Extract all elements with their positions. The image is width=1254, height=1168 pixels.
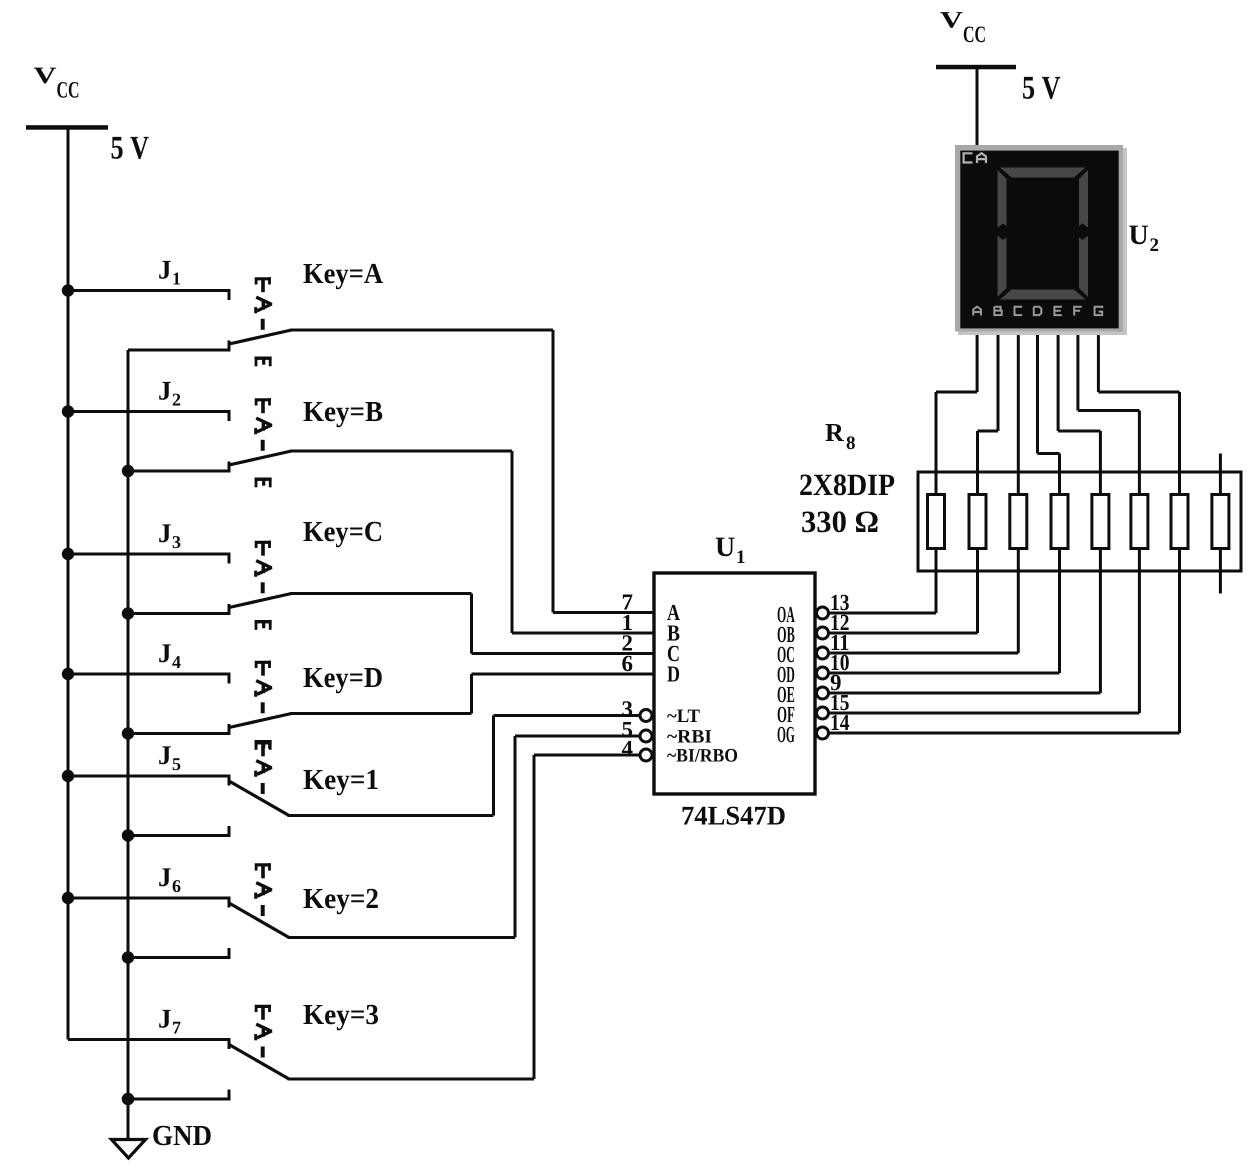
- segment a (lit): [1000, 168, 1086, 178]
- U1 body outline: [654, 573, 815, 794]
- wire: OF to resistor network: [829, 712, 1140, 715]
- J5 actuator glyphs: [255, 741, 271, 748]
- svg-text:2X8DIP: 2X8DIP: [799, 467, 895, 502]
- pin 3 inversion bubble: [640, 710, 652, 722]
- pin 12 inversion bubble: [817, 627, 829, 639]
- J4 bottom throw contact tick: [228, 724, 231, 734]
- wire: R8-5 internal leads: [1099, 472, 1102, 495]
- wire: J2 top throw from VCC bus: [68, 410, 231, 413]
- wire: display segment B to resistor: [976, 331, 1000, 472]
- U1 output pin 15 (OF): [777, 571, 1141, 727]
- resistor R8-4: [1051, 472, 1068, 571]
- wire: pin 1 lead: [512, 632, 654, 635]
- J4 actuator glyphs: [255, 661, 271, 668]
- svg-text:5 V: 5 V: [111, 131, 150, 167]
- junction dot on VCC bus at J1: [62, 284, 74, 296]
- wire: ground vertical rail (net GND): [127, 350, 130, 1138]
- R8 DIP body outline: [918, 472, 1241, 571]
- J7 bottom throw contact tick: [228, 1090, 231, 1100]
- junction dot on GND rail at J5: [122, 829, 134, 841]
- svg-text:Key=1: Key=1: [303, 764, 379, 796]
- svg-text:R: R: [825, 418, 844, 447]
- pin 9 inversion bubble: [817, 687, 829, 699]
- wire: J5 pole to U1: [288, 814, 494, 817]
- wire: unused R8-8 bottom stub: [1219, 571, 1222, 594]
- wire: R8-4 internal leads: [1058, 472, 1061, 495]
- wire: J5 top throw from VCC bus: [68, 775, 231, 778]
- wire: display segment C to resistor: [1017, 331, 1020, 472]
- J6 actuator glyphs: [255, 863, 271, 870]
- svg-text:CC: CC: [963, 22, 986, 48]
- J3 switch arm: [229, 594, 292, 608]
- J2 bottom throw contact tick: [228, 462, 231, 472]
- J5 bottom throw contact tick: [228, 826, 231, 836]
- wire: J6 top throw from VCC bus: [68, 897, 231, 900]
- svg-text:1: 1: [736, 547, 746, 568]
- svg-text:V: V: [34, 63, 57, 89]
- junction dot on VCC bus at J4: [62, 668, 74, 680]
- svg-text:2: 2: [1150, 235, 1160, 256]
- wire: pin 5 lead: [515, 735, 640, 738]
- wire: J3 top throw from VCC bus: [68, 553, 231, 556]
- VCC bar: [936, 65, 1016, 70]
- U1 output pin 13 (OA): [777, 571, 938, 627]
- wire: J2 pole to U1: [290, 450, 512, 453]
- GND triangle: [112, 1140, 146, 1159]
- wire: J4 top throw from VCC bus: [68, 673, 231, 676]
- pin 13 inversion bubble: [817, 607, 829, 619]
- J5 top throw contact tick: [228, 776, 231, 786]
- resistor R8-1: [928, 472, 945, 571]
- svg-text:J: J: [158, 376, 172, 406]
- svg-text:3: 3: [172, 532, 181, 552]
- pin 4 inversion bubble: [640, 749, 652, 761]
- wire: J2 bottom throw from GND rail: [128, 470, 231, 473]
- U2 pin label B: [994, 307, 1001, 315]
- J1 actuator glyphs: [255, 277, 271, 284]
- wire: J3 pole to U1: [290, 592, 472, 595]
- junction dot on VCC bus at J3: [62, 548, 74, 560]
- J1 bottom throw contact tick: [228, 341, 231, 351]
- wire: pin 7 lead: [553, 611, 654, 614]
- junction dot at GND rail / J7 throw: [122, 1093, 134, 1105]
- switch J7 (Key=3) SPDT: [68, 755, 536, 1105]
- switch J4 (Key=D) SPDT: [62, 638, 473, 750]
- U2 face: [960, 151, 1118, 329]
- resistor R8-7: [1171, 472, 1188, 571]
- U1 input pin 6 (D): [472, 651, 681, 687]
- wire: pin 3 lead: [494, 714, 641, 717]
- wire: OE to resistor network: [829, 692, 1101, 695]
- power symbol VCC (left): [26, 63, 149, 166]
- svg-text:J: J: [158, 1004, 172, 1034]
- wire: pin 6 lead: [472, 673, 655, 676]
- svg-text:J: J: [158, 638, 172, 668]
- wire: display segment F to resistor: [1076, 331, 1141, 472]
- svg-text:14: 14: [830, 710, 850, 735]
- U1 output pin 10 (OD): [777, 571, 1061, 687]
- U2 bezel frame: [955, 145, 1123, 332]
- wire: R8-3 internal leads: [1017, 472, 1020, 495]
- wire: display segment E to resistor: [1057, 331, 1102, 472]
- resistor R8-6: [1131, 472, 1148, 571]
- switch J5 (Key=1) SPDT: [62, 716, 495, 842]
- U1 output pin 12 (OB): [777, 571, 979, 647]
- ground symbol GND: [112, 1093, 213, 1158]
- junction dot on VCC bus at J2: [62, 405, 74, 417]
- J3 top throw contact tick: [228, 554, 231, 564]
- wire: J4 pole to U1: [290, 712, 472, 715]
- wire: J6 pole to U1: [288, 936, 516, 939]
- wire: OA to resistor network: [829, 612, 937, 615]
- svg-text:330 Ω: 330 Ω: [801, 504, 879, 539]
- J7 top throw contact tick: [228, 1040, 231, 1050]
- wire: J5 bottom throw from GND rail: [128, 834, 231, 837]
- switch J2 (Key=B) SPDT: [62, 376, 514, 634]
- segment d (lit): [1000, 290, 1086, 300]
- resistor R8-5: [1092, 472, 1109, 571]
- wire: OB to resistor network: [829, 632, 978, 635]
- J5 switch arm: [229, 781, 289, 816]
- J2 top throw contact tick: [228, 412, 231, 422]
- J2 actuator glyphs: [255, 398, 271, 405]
- junction dot on VCC bus at J6: [62, 892, 74, 904]
- pin 11 inversion bubble: [817, 647, 829, 659]
- svg-text:2: 2: [172, 390, 181, 410]
- wire: J6 bottom throw from GND rail: [128, 956, 231, 959]
- svg-text:6: 6: [622, 651, 634, 676]
- wire: R8-2 internal leads: [976, 472, 979, 495]
- wire: OG to resistor network: [829, 732, 1180, 735]
- pin 14 inversion bubble: [817, 727, 829, 739]
- svg-text:J: J: [158, 255, 172, 285]
- svg-text:J: J: [158, 518, 172, 548]
- J7 actuator glyphs: [255, 1005, 271, 1012]
- U1 output pin 11 (OC): [777, 571, 1020, 667]
- U1 input pin 1 (B): [512, 610, 680, 646]
- J6 top throw contact tick: [228, 898, 231, 908]
- wire: J1 pole to U1: [290, 329, 553, 332]
- wire: R8-6 internal leads: [1138, 472, 1141, 495]
- wire: R8-7 internal leads: [1178, 472, 1181, 495]
- svg-text:Key=B: Key=B: [303, 396, 383, 428]
- wire: R8-8 internal leads: [1219, 472, 1222, 495]
- svg-text:GND: GND: [152, 1120, 212, 1152]
- pin 5 inversion bubble: [640, 730, 652, 742]
- svg-text:D: D: [667, 662, 680, 687]
- U2 pin label A: [973, 307, 981, 316]
- U2 pin label F: [1074, 307, 1082, 316]
- junction dot on VCC bus at J5: [62, 770, 74, 782]
- wire: Vcc to display common anode: [976, 67, 979, 152]
- svg-text:Key=2: Key=2: [303, 883, 379, 915]
- resistor network R8 2X8DIP 330 Ohm: [799, 418, 1241, 571]
- segment g gap notch right: [1072, 223, 1093, 240]
- svg-text:6: 6: [172, 876, 181, 896]
- svg-text:Key=C: Key=C: [303, 516, 383, 548]
- U1 output pin 14 (OG): [777, 571, 1181, 747]
- svg-text:~RBI: ~RBI: [667, 726, 712, 747]
- IC U1 74LS47D: [654, 532, 815, 831]
- wire: pin 4 lead: [534, 754, 640, 757]
- switch J1 (Key=A) SPDT: [62, 255, 555, 613]
- switch J6 (Key=2) SPDT: [62, 736, 517, 964]
- label CA: [964, 153, 973, 162]
- junction dot on GND rail at J4: [122, 727, 134, 739]
- svg-text:U: U: [1129, 220, 1149, 251]
- J4 switch arm: [229, 714, 292, 728]
- svg-text:J: J: [158, 862, 172, 892]
- J1 top throw contact tick: [228, 291, 231, 301]
- wire: J3 bottom throw from GND rail: [128, 612, 231, 615]
- U1 input pin 7 (A): [553, 590, 680, 626]
- svg-text:4: 4: [622, 736, 634, 761]
- segment b,c (lit): [1079, 170, 1088, 297]
- svg-text:J: J: [158, 740, 172, 770]
- J6 bottom throw contact tick: [228, 948, 231, 958]
- svg-text:OG: OG: [777, 722, 795, 747]
- wire: J1 top throw from VCC bus: [68, 289, 231, 292]
- svg-text:8: 8: [846, 433, 856, 454]
- U1 control pin 5 (~RBI): [515, 717, 712, 747]
- VCC bar: [26, 125, 108, 130]
- svg-text:5: 5: [172, 754, 181, 774]
- svg-text:~LT: ~LT: [667, 706, 700, 727]
- resistor R8-3: [1010, 472, 1027, 571]
- wire: Vcc vertical bus (net VCC): [67, 130, 70, 1040]
- segment f,e (lit): [998, 170, 1007, 297]
- U2 pin label E: [1054, 307, 1062, 315]
- J3 actuator glyphs: [255, 541, 271, 548]
- wire: J7 bottom throw from GND rail: [128, 1098, 231, 1101]
- U2 pin label G: [1095, 307, 1103, 315]
- resistor R8-8: [1212, 472, 1229, 571]
- U2 shadow: [958, 148, 1127, 335]
- J4 top throw contact tick: [228, 674, 231, 684]
- wire: display segment G to resistor: [1097, 331, 1181, 472]
- segment g gap notch left: [992, 223, 1013, 240]
- U1 control pin 3 (~LT): [494, 697, 701, 727]
- U1 input pin 2 (C): [472, 631, 681, 667]
- wire: J7 pole to U1: [288, 1078, 535, 1081]
- U1 output pin 9 (OE): [777, 571, 1102, 707]
- svg-text:7: 7: [172, 1018, 181, 1038]
- svg-text:4: 4: [172, 652, 181, 672]
- seven-segment display U2: [955, 145, 1127, 335]
- wire: display segment A to resistor: [935, 331, 979, 472]
- junction dot on GND rail at J6: [122, 951, 134, 963]
- resistor R8-2: [969, 472, 986, 571]
- wire: display segment D to resistor: [1036, 331, 1061, 472]
- pin 15 inversion bubble: [817, 707, 829, 719]
- svg-text:V: V: [940, 8, 963, 34]
- svg-text:CC: CC: [57, 78, 80, 104]
- wire: OD to resistor network: [829, 672, 1060, 675]
- junction dot on GND rail at J7: [122, 1093, 134, 1105]
- J3 bottom throw contact tick: [228, 604, 231, 614]
- wire: J1 bottom throw from GND rail: [128, 349, 231, 352]
- svg-text:U: U: [715, 532, 735, 563]
- junction dot on GND rail at J3: [122, 607, 134, 619]
- svg-text:Key=3: Key=3: [303, 999, 379, 1031]
- J7 switch arm: [229, 1045, 289, 1080]
- J6 switch arm: [229, 903, 289, 938]
- svg-text:5 V: 5 V: [1022, 71, 1061, 107]
- wire: pin 2 lead: [472, 652, 655, 655]
- junction dot on GND rail at J2: [122, 465, 134, 477]
- wire: J7 top throw from VCC bus: [68, 1038, 231, 1041]
- J2 switch arm: [229, 451, 292, 465]
- switch J3 (Key=C) SPDT: [62, 516, 473, 654]
- power symbol VCC (right): [936, 8, 1061, 153]
- svg-text:Key=A: Key=A: [303, 258, 383, 290]
- U1 control pin 4 (~BI/RBO): [534, 736, 738, 766]
- svg-text:1: 1: [172, 269, 181, 289]
- U2 pin label D: [1034, 307, 1042, 315]
- svg-text:~BI/RBO: ~BI/RBO: [667, 745, 738, 766]
- wire: unused R8-8 top stub: [1219, 454, 1222, 473]
- wire: OC to resistor network: [829, 652, 1019, 655]
- U2 pin label C: [1015, 307, 1023, 315]
- label U2: [1129, 220, 1160, 256]
- J1 switch arm: [229, 330, 292, 344]
- wire: J4 bottom throw from GND rail: [128, 732, 231, 735]
- svg-text:74LS47D: 74LS47D: [681, 801, 786, 831]
- pin 10 inversion bubble: [817, 667, 829, 679]
- svg-text:Key=D: Key=D: [303, 662, 383, 694]
- wire: R8-1 internal leads: [935, 472, 938, 495]
